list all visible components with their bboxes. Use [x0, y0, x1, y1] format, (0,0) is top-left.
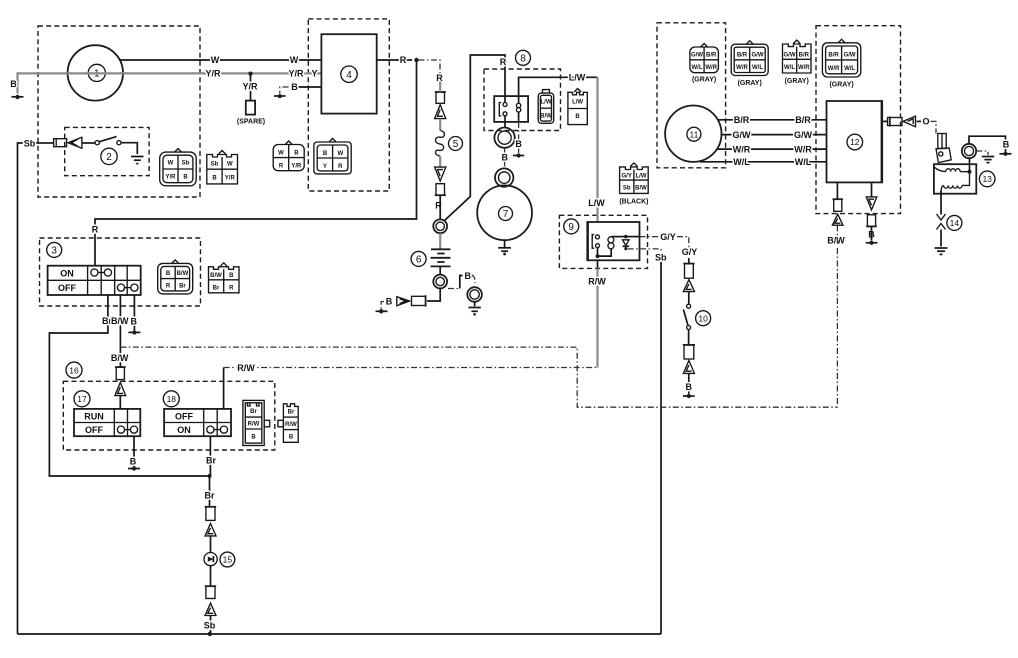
wire L/W from starter switch to relay [519, 73, 606, 223]
connector bullet male below fuse [435, 184, 446, 196]
vertical connector block Br/RW/B left (female) [243, 400, 270, 445]
svg-text:R: R [338, 164, 343, 170]
svg-text:W/R: W/R [794, 144, 812, 154]
svg-text:Br: Br [204, 490, 214, 500]
svg-text:Y/R: Y/R [288, 69, 304, 79]
connector female arrow on CDI B/W [832, 214, 843, 225]
CDI magneto 11 [665, 106, 721, 162]
wire R to battery positive ring [439, 195, 441, 219]
svg-text:4: 4 [346, 70, 352, 81]
wire O CDI to ignition coil [882, 117, 937, 134]
svg-text:3: 3 [51, 246, 57, 257]
connector female arrow below bullet [435, 105, 446, 119]
wire B/W long link from CDI to handlebar switch [120, 347, 837, 407]
svg-text:9: 9 [568, 222, 574, 233]
svg-text:G/W: G/W [733, 130, 752, 140]
frame ground ring terminal [467, 287, 482, 302]
ground for cut-off switch [683, 394, 695, 398]
svg-text:B/R: B/R [706, 53, 717, 59]
svg-text:G/W: G/W [691, 53, 703, 59]
svg-text:B/W: B/W [827, 235, 845, 245]
svg-text:Br: Br [179, 284, 186, 290]
svg-text:Y/R: Y/R [205, 69, 221, 79]
wire R/W long link to lighting switch [224, 363, 598, 409]
CDI unit 12 [827, 101, 883, 182]
connector bullet male on G/Y chain [683, 258, 694, 278]
wire B starter switch body ground [515, 112, 522, 153]
wire B CDI output [868, 182, 875, 240]
svg-text:(GRAY): (GRAY) [785, 78, 809, 85]
connector bullet male above fuse [435, 82, 446, 104]
connector female arrow on O wire [903, 116, 916, 127]
svg-text:Sb: Sb [623, 185, 631, 191]
svg-text:OFF: OFF [85, 425, 103, 435]
svg-text:W/L: W/L [844, 66, 855, 72]
wire B/R magneto to CDI [718, 115, 827, 125]
dashed enclosure box 3 (main switch) [40, 238, 201, 306]
svg-text:B/R: B/R [734, 115, 750, 125]
connector bullet male on CDI B [866, 215, 877, 227]
wire Sb to bottom bus [204, 616, 216, 635]
svg-text:G/W: G/W [752, 53, 764, 59]
svg-text:W/L: W/L [733, 157, 750, 167]
main switch 3 [47, 242, 141, 295]
svg-text:Br: Br [288, 410, 295, 416]
wire R rectifier output [377, 59, 412, 61]
svg-text:W: W [278, 151, 284, 157]
svg-text:R: R [229, 285, 234, 291]
starter motor terminal ring [495, 168, 513, 186]
svg-text:R/W: R/W [285, 422, 297, 428]
vertical connector block Br/RW/B right (male) [278, 404, 298, 443]
engine stop switch 17 [74, 391, 140, 436]
svg-text:R: R [400, 55, 407, 65]
svg-text:R/W: R/W [237, 363, 255, 373]
ground for CDI B [866, 241, 878, 245]
connector female arrow below diode [205, 603, 216, 615]
connector block GRAY 1 (female) [690, 44, 719, 84]
connector bullet male on B/W into kill switch [115, 367, 126, 380]
svg-text:R: R [92, 225, 99, 235]
svg-text:Sb: Sb [204, 621, 216, 631]
dashed enclosure box 9 (starter relay) [559, 215, 647, 268]
connector bullet male below cut-off switch [683, 345, 695, 359]
dashed enclosure box 8 (starter switch) [484, 69, 561, 131]
wire Br from lighting switch down [209, 436, 211, 476]
svg-text:7: 7 [503, 209, 509, 220]
svg-text:W: W [211, 55, 220, 65]
connector block GRAY 4 (female double) [822, 39, 860, 88]
starter cut-off switch 10 [683, 292, 710, 345]
wire W/L magneto to CDI [700, 157, 827, 167]
svg-text:OFF: OFF [175, 411, 193, 421]
svg-text:R: R [166, 284, 171, 290]
svg-text:Br: Br [206, 455, 216, 465]
svg-text:Br: Br [250, 409, 257, 415]
connector female arrow below fuse [435, 167, 446, 181]
spare connector [246, 101, 255, 115]
svg-text:B/R: B/R [828, 53, 839, 59]
svg-text:B: B [131, 317, 138, 327]
svg-text:(GRAY): (GRAY) [829, 82, 853, 89]
connector block W|B R|Y/R near rectifier (female) [273, 141, 304, 171]
dashed enclosure box 11 (CDI magneto) [657, 23, 726, 168]
svg-text:R/W: R/W [248, 422, 260, 428]
svg-text:(GRAY): (GRAY) [738, 80, 762, 87]
svg-text:G/Y: G/Y [682, 247, 698, 257]
svg-text:W/R: W/R [828, 66, 840, 72]
wire Y/R left lead to ground [18, 73, 68, 93]
ignition coil 13 [934, 158, 995, 194]
svg-text:17: 17 [77, 394, 87, 404]
wire R to main switch (down, left, down) [95, 60, 417, 266]
lighting switch 18 [163, 391, 231, 436]
connector block B/W|B Br|R at main switch (male) [209, 263, 240, 293]
node junction R [414, 58, 418, 62]
wire Br to diode chain [204, 455, 216, 506]
svg-text:W/L: W/L [692, 65, 703, 71]
svg-text:14: 14 [950, 218, 960, 228]
ground for coil B lead [1000, 152, 1012, 156]
svg-text:W/R: W/R [798, 65, 810, 71]
svg-text:Y: Y [311, 69, 317, 79]
svg-text:B/W: B/W [540, 114, 552, 120]
svg-text:16: 16 [69, 365, 79, 375]
svg-text:ON: ON [177, 425, 191, 435]
connector female arrow on Sb lead [68, 137, 82, 148]
svg-text:B: B [575, 114, 580, 120]
svg-text:W/R: W/R [705, 65, 717, 71]
svg-text:OFF: OFF [58, 283, 76, 293]
svg-text:R: R [500, 57, 507, 67]
connector bullet male on O wire [888, 116, 903, 126]
svg-text:L/W: L/W [636, 173, 647, 179]
svg-text:B/W: B/W [210, 273, 222, 279]
ground for frame ring [468, 302, 480, 316]
svg-text:B/W: B/W [111, 316, 129, 326]
wire Y/R from magneto to rectifier [68, 72, 322, 74]
svg-text:B: B [686, 382, 693, 392]
wire Sb relay to bottom bus [628, 249, 667, 634]
wire coil ring to B ground [969, 136, 1010, 153]
wire B rectifier to ground bracket [296, 86, 321, 88]
svg-text:W: W [227, 162, 233, 168]
connector block L/W|B/W at starter switch (female) [538, 90, 554, 124]
svg-text:6: 6 [416, 255, 422, 266]
connector bullet male on battery B lead [412, 295, 426, 306]
dashed enclosure box 16 (handlebar switch) [63, 381, 274, 450]
connector bullet male below diode [205, 586, 217, 598]
ground for main switch [128, 330, 140, 334]
connector bullet male on CDI B/W [833, 199, 844, 211]
ground for starter switch [513, 153, 524, 157]
coil terminal ring [962, 144, 976, 158]
connector female arrow below cut-off switch [683, 361, 694, 374]
battery negative ring terminal [433, 275, 447, 289]
svg-text:Br: Br [213, 285, 220, 291]
connector bullet male on Sb lead [54, 139, 67, 147]
connector block GRAY 2 (female double) [731, 41, 768, 87]
svg-text:Y/R: Y/R [291, 164, 302, 170]
ground for switch 2 [131, 157, 144, 164]
spark plug cap connector [936, 134, 951, 163]
svg-text:18: 18 [167, 394, 177, 404]
svg-text:2: 2 [106, 152, 112, 163]
fuse 5 element [435, 119, 462, 168]
wire R/W relay output down [588, 260, 606, 367]
svg-text:11: 11 [689, 129, 698, 139]
magneto 1 (AC generator circle) [68, 45, 123, 100]
svg-text:Y/R: Y/R [242, 82, 258, 92]
svg-text:(GRAY): (GRAY) [692, 76, 716, 83]
ground for rectifier B [274, 87, 289, 98]
svg-text:ON: ON [60, 269, 74, 279]
wire W from magneto to rectifier [119, 59, 321, 61]
svg-text:G/W: G/W [844, 53, 856, 59]
svg-text:B: B [323, 151, 328, 157]
wire B battery negative to frame ground ring [448, 271, 475, 289]
connector female arrow on B/W into kill switch [115, 382, 126, 395]
svg-text:Y/R: Y/R [225, 176, 236, 182]
svg-text:RUN: RUN [84, 411, 104, 421]
node junction Sb bottom bus [208, 632, 212, 636]
wire G/W magneto to CDI [722, 130, 827, 140]
svg-text:G/W: G/W [794, 130, 813, 140]
wire R dashed branch to fuse [419, 60, 441, 74]
wire R battery to starter switch (diagonal and up) [445, 55, 506, 221]
starter motor 7 [477, 185, 532, 240]
svg-text:L/W: L/W [572, 100, 583, 106]
svg-text:R/W: R/W [588, 276, 606, 286]
svg-text:Y/R: Y/R [165, 175, 176, 181]
svg-text:(BLACK): (BLACK) [619, 198, 648, 205]
starter switch 8 [494, 50, 530, 127]
ground for starter motor [498, 240, 511, 255]
svg-text:L/W: L/W [569, 73, 586, 83]
svg-text:W: W [168, 161, 174, 167]
svg-text:W/L: W/L [752, 65, 763, 71]
svg-text:Sb: Sb [182, 161, 190, 167]
connector block GRAY 3 (male) [783, 40, 812, 85]
svg-text:B: B [515, 139, 522, 149]
wire B from stop switch to ground [130, 436, 137, 466]
svg-text:Sb: Sb [655, 252, 667, 262]
svg-text:(SPARE): (SPARE) [237, 119, 265, 126]
svg-text:B: B [502, 153, 509, 163]
dashed enclosure box 12 (CDI unit) [816, 26, 901, 214]
svg-text:B: B [183, 175, 188, 181]
connector block W|Sb Y/R|B (female) [160, 149, 197, 186]
wire Br from main switch [49, 295, 207, 476]
svg-text:15: 15 [223, 555, 233, 565]
connector block B|B/W R|Br at main switch (female) [158, 260, 193, 294]
svg-text:B: B [130, 457, 137, 467]
wire B/W CDI output [827, 182, 845, 407]
connector female arrow on battery B lead [397, 297, 410, 306]
dashed enclosure box 1 (magneto unit) [38, 26, 200, 197]
node junction Br bus [208, 474, 212, 478]
svg-text:B: B [386, 297, 393, 307]
svg-text:10: 10 [698, 313, 708, 323]
svg-text:B: B [166, 271, 171, 277]
wire B starter cable [502, 148, 509, 167]
svg-text:G/Y: G/Y [622, 173, 632, 179]
svg-text:G/W: G/W [784, 53, 796, 59]
svg-text:R: R [279, 164, 284, 170]
connector female arrow on G/Y chain [683, 280, 694, 292]
svg-text:5: 5 [453, 139, 459, 150]
svg-text:W: W [290, 55, 299, 65]
svg-text:Sb: Sb [24, 138, 36, 148]
svg-text:Sb: Sb [211, 162, 219, 168]
svg-text:B: B [10, 79, 17, 89]
svg-text:B/W: B/W [635, 185, 647, 191]
wire B/W from main switch [111, 295, 129, 367]
svg-text:B: B [1003, 140, 1010, 150]
dashed enclosure box 4 (rectifier) [308, 19, 389, 191]
svg-text:R: R [435, 201, 442, 211]
ground for battery negative [376, 302, 388, 314]
svg-text:W: W [337, 151, 343, 157]
wire switch 2 to ground [121, 143, 137, 154]
starter relay 9 [564, 219, 640, 260]
svg-text:B: B [291, 82, 298, 92]
battery 6 [411, 233, 450, 274]
ground for magneto left lead [10, 79, 23, 99]
svg-text:W/L: W/L [795, 157, 812, 167]
node junction Y/R spare tap [248, 72, 252, 76]
svg-text:W/R: W/R [733, 144, 751, 154]
ground for stop switch [128, 466, 140, 470]
svg-text:B: B [294, 151, 299, 157]
svg-text:B/W: B/W [111, 353, 129, 363]
connector female arrow above diode [205, 524, 216, 536]
connector block B|W Y|R near rectifier (female double) [314, 139, 351, 174]
svg-text:B/R: B/R [799, 53, 810, 59]
wire Sb from flywheel lead [18, 138, 54, 634]
spark plug 14 [937, 194, 962, 247]
svg-text:B: B [251, 435, 256, 441]
battery positive ring terminal [433, 219, 447, 233]
wire W/R magneto to CDI [717, 144, 827, 154]
svg-text:G/Y: G/Y [660, 232, 676, 242]
connector bullet male above diode [205, 507, 217, 521]
connector block G/Y|L/W Sb|B/W (BLACK male) [619, 163, 648, 206]
connector female arrow on CDI B [866, 197, 877, 210]
svg-text:L/W: L/W [541, 100, 552, 106]
wire B below cut-off switch [686, 373, 693, 393]
svg-text:W/L: W/L [784, 65, 795, 71]
svg-text:12: 12 [850, 137, 860, 147]
svg-text:W/R: W/R [736, 65, 748, 71]
wire Y/R spare drop [250, 74, 252, 101]
handlebar switch 16 label [66, 362, 82, 378]
wire to switch 2 [82, 142, 95, 144]
svg-text:B: B [212, 176, 217, 182]
svg-text:Y: Y [323, 164, 327, 170]
svg-text:B: B [465, 271, 472, 281]
wire G/Y relay to cut-off switch [626, 232, 697, 257]
svg-text:B: B [289, 435, 294, 441]
svg-text:B/R: B/R [795, 115, 811, 125]
switch 2 (open contact) [95, 137, 121, 165]
svg-text:B/W: B/W [177, 271, 189, 277]
svg-text:8: 8 [520, 53, 526, 64]
svg-text:O: O [922, 117, 929, 127]
connector block Sb|W B|Y/R (male) [207, 151, 238, 184]
dashed enclosure box 2 [65, 127, 149, 175]
ground for coil ring [976, 151, 994, 163]
rectifier / regulator 4 [321, 34, 376, 113]
connector block L/W|B at starter switch (male) [568, 89, 587, 125]
diode 15 [204, 536, 235, 586]
wire bottom Sb bus [18, 633, 662, 635]
wire battery negative to B lead [427, 288, 440, 301]
ground for spark plug [935, 248, 948, 254]
battery to starter cable rings [494, 128, 514, 148]
svg-text:L/W: L/W [588, 198, 605, 208]
wire B from main switch [131, 295, 138, 330]
svg-text:13: 13 [982, 174, 992, 184]
svg-text:B: B [229, 273, 234, 279]
svg-text:B/R: B/R [737, 53, 748, 59]
